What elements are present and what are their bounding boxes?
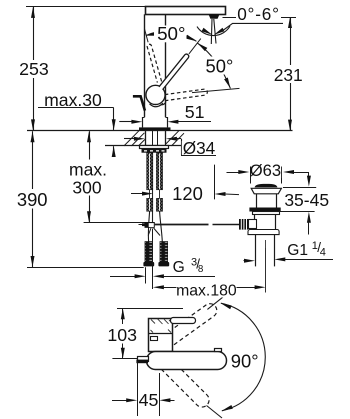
svg-text:50°: 50°: [157, 23, 185, 44]
svg-text:Ø34: Ø34: [183, 138, 216, 158]
svg-text:50°: 50°: [205, 56, 233, 77]
svg-text:max.: max.: [69, 159, 107, 179]
svg-text:390: 390: [17, 189, 48, 210]
svg-text:Ø63: Ø63: [250, 161, 281, 180]
svg-text:90°: 90°: [231, 350, 259, 371]
svg-text:0°-6°: 0°-6°: [237, 4, 280, 24]
svg-text:103: 103: [107, 325, 137, 345]
svg-text:G11/4: G11/4: [287, 240, 326, 259]
svg-text:120: 120: [172, 183, 203, 204]
svg-text:51: 51: [185, 102, 205, 122]
svg-text:max.180: max.180: [176, 282, 237, 299]
svg-text:300: 300: [72, 177, 101, 197]
svg-text:45: 45: [139, 390, 159, 410]
svg-text:253: 253: [19, 59, 49, 79]
svg-text:231: 231: [274, 65, 303, 85]
svg-text:35-45: 35-45: [284, 190, 329, 210]
svg-text:max.30: max.30: [44, 90, 102, 110]
